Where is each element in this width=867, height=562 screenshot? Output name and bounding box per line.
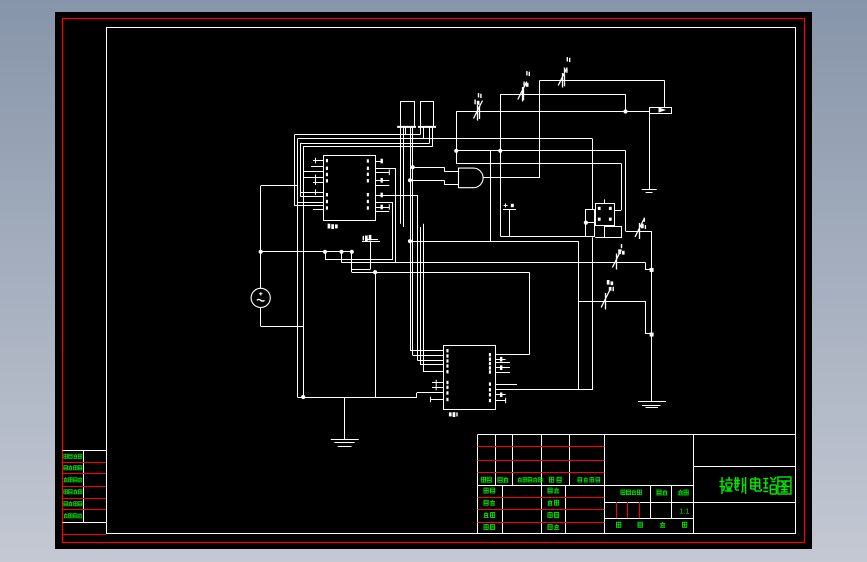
svg-text:1:1: 1:1 <box>680 509 690 516</box>
